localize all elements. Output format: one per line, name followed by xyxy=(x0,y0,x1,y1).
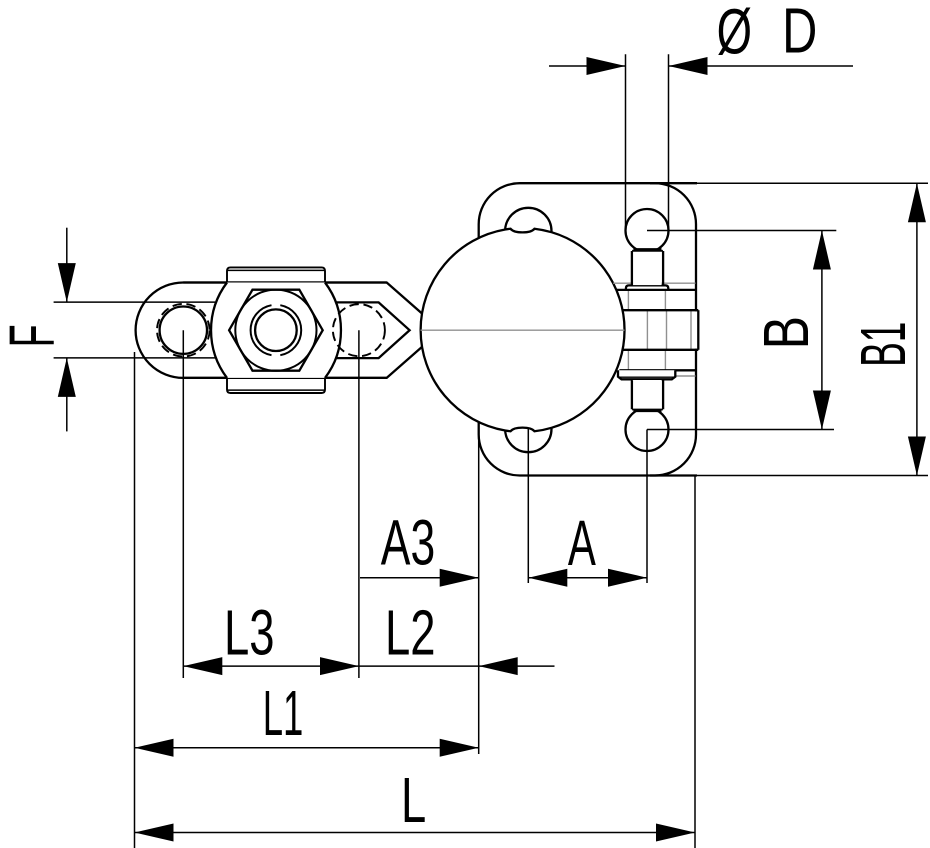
block bottom edge xyxy=(619,369,695,371)
nut top cap xyxy=(227,267,325,282)
nut bottom cap xyxy=(227,378,325,393)
ball center line xyxy=(421,329,625,331)
dim F arrow bottom xyxy=(58,358,76,397)
clamp ball xyxy=(421,229,625,432)
extension line left hole center xyxy=(182,330,184,678)
nut washer barrel fill xyxy=(211,283,341,378)
socket ring bottom edge xyxy=(622,349,698,351)
dim L1 arrow left xyxy=(135,739,174,757)
svg-text:F: F xyxy=(0,324,68,347)
washer bar xyxy=(618,370,675,379)
arm left hole xyxy=(160,307,207,354)
arm outline xyxy=(136,283,422,378)
arm right hole thread dashed circle xyxy=(333,304,385,356)
arm left hole thread dashed circle xyxy=(157,304,210,357)
dim L arrow right xyxy=(656,824,695,842)
top screw neck cap lines xyxy=(632,249,663,251)
washer bar inner line xyxy=(620,376,674,378)
dim B arrow top xyxy=(813,231,831,270)
dim L2 arrow xyxy=(479,657,518,675)
bottom screw neck cap lines xyxy=(632,410,663,412)
dim L3 arrow left xyxy=(183,657,222,675)
block gray top line xyxy=(613,282,695,284)
dim A3 line xyxy=(360,577,479,579)
bottom screw neck sides xyxy=(632,380,663,409)
dim B extension lines xyxy=(647,231,836,430)
white patch over plate edge behind socket ring xyxy=(694,311,698,348)
socket ring right edge xyxy=(697,310,699,350)
arm bottom edge across xyxy=(183,377,386,379)
svg-text:Ø: Ø xyxy=(717,0,752,68)
dim A line xyxy=(528,577,647,579)
flange plate xyxy=(479,183,696,475)
dim L1 arrow right xyxy=(440,739,479,757)
dim B1 line xyxy=(916,183,918,475)
hex nut xyxy=(229,290,323,371)
svg-text:A: A xyxy=(568,507,596,579)
dim A arrow right xyxy=(608,569,647,587)
svg-text:D: D xyxy=(782,0,817,67)
bottom screw neck fill xyxy=(633,380,662,411)
dim B arrow bottom xyxy=(813,391,831,430)
svg-text:L1: L1 xyxy=(263,677,304,749)
dim L3 line xyxy=(183,665,359,667)
dim B line xyxy=(821,231,823,430)
top pin ball head xyxy=(626,209,669,252)
arm top edge across xyxy=(183,281,386,283)
nut chamfer circle xyxy=(235,290,316,371)
top mounting hole xyxy=(505,208,551,254)
socket ring top edge xyxy=(622,309,698,311)
top screw neck fill xyxy=(633,250,662,286)
dim D line left xyxy=(549,65,626,67)
svg-text:B: B xyxy=(750,316,822,349)
dim B1 arrow top xyxy=(908,183,926,222)
nut bottom cap inner line xyxy=(227,389,325,391)
dim L arrow left xyxy=(135,824,174,842)
dim B1 extension lines xyxy=(697,183,928,475)
top screw neck sides xyxy=(632,251,663,285)
block top edge xyxy=(617,289,696,291)
dim L line xyxy=(135,832,696,834)
svg-text:A3: A3 xyxy=(381,507,435,579)
plate bottom edge extension over corner xyxy=(650,474,697,476)
svg-text:L3: L3 xyxy=(224,596,275,668)
dim F extension lines xyxy=(54,302,215,358)
svg-text:L: L xyxy=(401,764,426,836)
dim A3 arrow xyxy=(440,569,479,587)
dim F line bottom xyxy=(66,358,68,432)
bottom pin ball head xyxy=(626,408,669,451)
extension line right hole center xyxy=(358,330,360,678)
extension line bottom hole center xyxy=(527,429,529,583)
nut top cap inner line xyxy=(227,269,325,271)
plate top edge extension over corner xyxy=(650,182,697,184)
extension line plate right edge xyxy=(694,476,696,848)
dim D arrow right xyxy=(669,57,708,75)
block gray verticals bottom band xyxy=(628,350,665,371)
svg-text:B1: B1 xyxy=(847,322,919,367)
dim L3 arrow right xyxy=(320,657,359,675)
dim D extension lines xyxy=(626,54,669,230)
extension line arm left end xyxy=(134,352,136,848)
dim B1 arrow bottom xyxy=(908,437,926,476)
block gray verticals socket xyxy=(647,310,691,350)
dim A arrow left xyxy=(528,569,567,587)
dim D arrow left xyxy=(587,57,626,75)
nut washer barrel right arc xyxy=(325,283,341,378)
dim F line top xyxy=(66,228,68,302)
bottom mounting hole xyxy=(505,406,551,452)
arm inner chevron plate edges xyxy=(336,302,410,358)
nut thread outer arc left xyxy=(251,305,272,355)
dim L2 line xyxy=(359,665,555,667)
dim D line right xyxy=(669,65,854,67)
extension line plate left edge xyxy=(478,436,480,754)
block gray line right of washer xyxy=(676,375,696,377)
nut bore circle xyxy=(255,309,297,351)
dim F arrow top xyxy=(58,263,76,302)
block gray verticals top band xyxy=(628,290,665,310)
svg-text:L2: L2 xyxy=(385,596,436,668)
screw shoulder bar xyxy=(626,285,668,290)
nut thread outer arc right xyxy=(280,305,301,355)
dim L1 line xyxy=(135,747,479,749)
nut washer barrel left arc xyxy=(211,283,227,378)
extension line bottom pin center xyxy=(646,430,648,584)
